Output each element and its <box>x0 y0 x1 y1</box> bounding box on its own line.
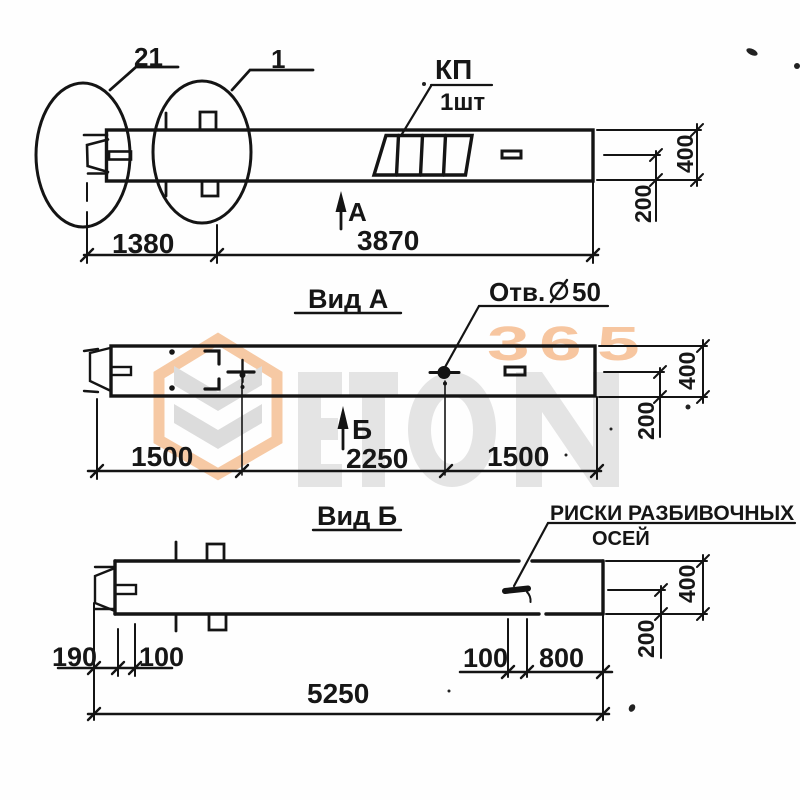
left anchor hook view B <box>95 567 136 611</box>
total dim line 5250 <box>88 713 609 716</box>
watermark hexagon logo <box>159 339 277 474</box>
KP plate parallelogram <box>374 136 472 176</box>
left dim extension lines <box>94 603 135 720</box>
watermark digits 365 <box>487 317 640 371</box>
left dim ticks <box>88 662 141 674</box>
right stack 400/200 view B <box>606 555 709 658</box>
dim extension lines view A <box>97 397 597 479</box>
left anchor hook top view <box>84 135 131 174</box>
svg-text:А: А <box>348 197 367 227</box>
svg-text:100: 100 <box>139 642 184 672</box>
svg-text:190: 190 <box>52 642 97 672</box>
svg-text:800: 800 <box>539 643 584 673</box>
tick below beam x166 <box>165 181 168 196</box>
svg-text:200: 200 <box>633 620 659 658</box>
tick above beam view B <box>175 542 178 560</box>
detail callout ellipse 21 <box>36 83 130 227</box>
slot mark view A <box>505 367 525 375</box>
svg-text:1380: 1380 <box>112 228 174 259</box>
tick below beam view B <box>175 616 178 631</box>
right stack 400/200 top view <box>597 124 703 221</box>
svg-text:1500: 1500 <box>131 441 193 472</box>
svg-text:Б: Б <box>352 414 372 445</box>
right dim extension lines <box>508 614 603 720</box>
tab below beam view B <box>209 614 226 630</box>
svg-text:200: 200 <box>633 402 659 440</box>
svg-text:5250: 5250 <box>307 678 369 709</box>
speck below total dim <box>627 703 636 713</box>
total dim ticks <box>88 708 609 720</box>
svg-text:Вид А: Вид А <box>308 284 388 314</box>
section arrow B <box>338 406 349 449</box>
bottom tab in ellipse 1 <box>202 181 218 196</box>
diameter symbol in label <box>551 280 567 302</box>
svg-text:400: 400 <box>674 565 700 603</box>
speck top right <box>745 47 758 58</box>
dim ticks view A <box>91 465 603 477</box>
svg-text:1500: 1500 <box>487 441 549 472</box>
beam outline view A <box>111 346 595 396</box>
extension from cross to dim <box>241 383 243 475</box>
speck far right <box>794 63 800 69</box>
title underline Vid A <box>295 312 401 314</box>
hook centerline dashes <box>86 183 88 201</box>
speck right mid <box>610 428 613 431</box>
watermark word ETON (drawn letters) <box>298 372 619 487</box>
beam outline view B (bottom edge with gap) <box>115 561 603 614</box>
title underline Vid B <box>313 529 401 531</box>
tab above beam view B <box>207 544 224 561</box>
dim 1380/3870 extension lines <box>87 181 593 263</box>
dim line 1500/2250/1500 <box>88 470 601 473</box>
extension from hole to dim <box>444 381 446 475</box>
section arrow A <box>336 191 347 229</box>
tick above beam x166 <box>165 113 168 129</box>
svg-text:100: 100 <box>463 643 508 673</box>
risk mark on beam <box>505 589 528 592</box>
svg-text:5: 5 <box>597 317 640 371</box>
dim ticks <box>81 249 599 261</box>
svg-text:400: 400 <box>674 352 700 390</box>
KP leader <box>402 85 492 134</box>
axis-marks label underline and leader <box>514 523 795 586</box>
speck near 5250 <box>448 690 451 693</box>
svg-text:21: 21 <box>134 42 163 72</box>
speck near KP label <box>422 82 426 86</box>
right dim line 100/800 <box>460 671 612 674</box>
speck near 1500 right <box>565 454 568 457</box>
svg-text:РИСКИ РАЗБИВОЧНЫХ: РИСКИ РАЗБИВОЧНЫХ <box>550 502 794 525</box>
svg-text:200: 200 <box>630 185 656 223</box>
beam outline top view <box>107 130 594 181</box>
svg-text:400: 400 <box>672 135 698 173</box>
left anchor hook view A <box>84 348 131 392</box>
dim line 1380/3870 <box>84 254 598 257</box>
slot mark top view <box>502 151 521 158</box>
svg-text:ОСЕЙ: ОСЕЙ <box>592 526 650 550</box>
svg-text:6: 6 <box>539 317 582 371</box>
svg-text:1шт: 1шт <box>440 89 485 116</box>
hole label underline and leader <box>444 306 608 369</box>
svg-text:КП: КП <box>435 54 472 85</box>
right dim ticks <box>502 666 609 678</box>
svg-text:50: 50 <box>572 277 601 307</box>
right stack 400/200 view A <box>599 340 709 437</box>
hole Otv 50 symbol <box>430 368 459 386</box>
svg-text:Отв.: Отв. <box>489 277 545 307</box>
bolt dots <box>169 349 175 355</box>
speck right of view A <box>686 405 691 410</box>
channel bracket marks <box>205 351 219 389</box>
left dim line 190/100 <box>58 667 172 670</box>
svg-text:Вид Б: Вид Б <box>317 501 397 531</box>
leader for label 21 <box>110 67 178 90</box>
svg-text:1: 1 <box>271 44 285 74</box>
svg-text:3: 3 <box>487 317 530 371</box>
top tab in ellipse 1 <box>200 112 216 129</box>
centering cross <box>228 360 254 389</box>
leader for label 1 <box>232 70 313 90</box>
detail callout ellipse 1 <box>153 81 251 223</box>
svg-text:3870: 3870 <box>357 225 419 256</box>
svg-text:2250: 2250 <box>346 443 408 474</box>
